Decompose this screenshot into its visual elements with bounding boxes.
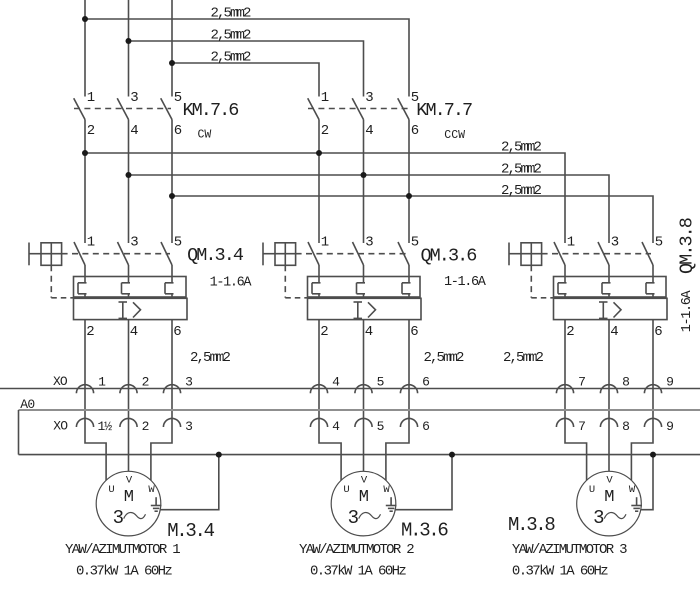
- svg-text:U: U: [108, 484, 114, 496]
- svg-text:W: W: [629, 484, 636, 496]
- mechanical linkage QM.3.6: [296, 253, 407, 255]
- svg-text:CW: CW: [198, 128, 212, 141]
- svg-text:0.37kW 1A 60Hz: 0.37kW 1A 60Hz: [76, 564, 172, 580]
- wire blade to overload QM.3.6 1-2: [318, 265, 320, 277]
- junction bus C / KM.7.6: [169, 193, 175, 199]
- wire blade to overload QM.3.6 3-4: [363, 265, 365, 277]
- breaker pole blade QM.3.4 5-6: [161, 242, 172, 265]
- terminal clip row 2 #2: [120, 418, 137, 427]
- terminal X0:9 clip row 1: [644, 385, 661, 394]
- svg-text:0.37kW 1A 60Hz: 0.37kW 1A 60Hz: [512, 564, 608, 580]
- svg-text:4: 4: [365, 123, 373, 139]
- junction PE bus motor M.3.4: [216, 452, 222, 458]
- svg-text:0.37kW 1A 60Hz: 0.37kW 1A 60Hz: [310, 564, 406, 580]
- contactor pole blade KM.7.6 3-4: [117, 98, 128, 119]
- svg-text:3: 3: [185, 419, 193, 434]
- svg-text:2,5mm2: 2,5mm2: [503, 350, 544, 366]
- svg-text:W: W: [383, 484, 390, 496]
- wire bus phase B to QM.3.8 pin 3: [129, 175, 610, 243]
- manual actuator QM.3.6: [263, 243, 296, 266]
- wire QM pin 6 to motor 2 W: [386, 320, 409, 481]
- wire L1 to KM.7.7 pin 5: [85, 19, 409, 97]
- breaker pole blade QM.3.8 5-6: [642, 242, 653, 265]
- wire QM pin 6 to motor 1 W: [151, 320, 172, 481]
- I> symbol QM.3.4: [119, 302, 141, 318]
- mechanical linkage KM.7.7: [308, 108, 408, 110]
- wire blade to overload QM.3.4 1-2: [84, 265, 86, 277]
- svg-text:1-1.6A: 1-1.6A: [444, 275, 487, 290]
- svg-text:1: 1: [321, 235, 329, 251]
- svg-text:QM.3.8: QM.3.8: [677, 218, 698, 274]
- junction PE bus motor M.3.8: [650, 452, 656, 458]
- svg-text:2: 2: [320, 324, 328, 340]
- breaker pole blade QM.3.8 1-2: [554, 242, 565, 265]
- mechanical linkage QM.3.4: [62, 253, 170, 255]
- trip linkage dashed QM.3.4: [51, 265, 73, 298]
- I> symbol QM.3.8: [599, 302, 621, 318]
- terminal clip row 2 #9: [644, 418, 661, 427]
- motor protection switch QM.3.8: [509, 218, 698, 340]
- svg-text:6: 6: [411, 123, 419, 139]
- wire bus phase C to QM.3.8 pin 5: [172, 196, 653, 243]
- PE ground bus: [19, 454, 700, 456]
- wire QM pin 2 to motor 3 U: [565, 320, 587, 481]
- manual actuator QM.3.8: [509, 243, 542, 266]
- thermal element pole 5 QM.3.6: [402, 277, 411, 298]
- terminal X0:2 clip row 1: [120, 385, 137, 394]
- svg-text:6: 6: [410, 324, 418, 340]
- svg-text:YAW/AZIMUTMOTOR 2: YAW/AZIMUTMOTOR 2: [299, 542, 414, 558]
- svg-text:1-1.6A: 1-1.6A: [210, 276, 253, 291]
- terminal clip row 2 #4: [310, 418, 327, 427]
- svg-text:3: 3: [113, 507, 124, 529]
- svg-text:QM.3.6: QM.3.6: [421, 246, 477, 267]
- svg-text:1½: 1½: [98, 419, 113, 434]
- thermal element pole 5 QM.3.4: [165, 277, 174, 298]
- svg-text:2,5mm2: 2,5mm2: [501, 140, 542, 156]
- wire KM.7.6 pin 2 down to QM.3.4 pin 1: [84, 120, 86, 244]
- thermal overload box QM.3.4: [74, 277, 187, 298]
- svg-text:2,5mm2: 2,5mm2: [501, 183, 542, 199]
- contactor KM.7.7 (CCW): [308, 90, 472, 142]
- svg-text:5: 5: [174, 90, 182, 106]
- wire motor M.3.8 PE to ground bus: [641, 455, 653, 510]
- motor protection switch QM.3.4: [29, 235, 252, 340]
- thermal overload box QM.3.8: [554, 277, 667, 298]
- thermal element pole 3 QM.3.4: [122, 277, 131, 298]
- svg-text:2,5mm2: 2,5mm2: [190, 350, 231, 366]
- wire supply L3 vertical: [171, 0, 173, 97]
- thermal element pole 1 QM.3.6: [312, 277, 321, 298]
- svg-text:4: 4: [130, 324, 138, 340]
- svg-text:6: 6: [422, 419, 430, 434]
- svg-text:1-1.6A: 1-1.6A: [680, 290, 695, 333]
- svg-text:2,5mm2: 2,5mm2: [211, 6, 252, 22]
- svg-text:YAW/AZIMUTMOTOR 1: YAW/AZIMUTMOTOR 1: [65, 542, 180, 558]
- svg-text:CCW: CCW: [444, 129, 465, 142]
- wire bus phase A to QM.3.8 pin 1: [85, 153, 565, 243]
- wire QM pin 6 to motor 3 W: [631, 320, 653, 481]
- svg-text:U: U: [589, 484, 595, 496]
- contactor pole blade KM.7.6 5-6: [161, 98, 172, 119]
- thermal element pole 5 QM.3.8: [646, 277, 655, 298]
- terminal X0:3 clip row 1: [163, 385, 180, 394]
- svg-text:M.3.6: M.3.6: [401, 520, 448, 542]
- magnetic trip box I> QM.3.4: [74, 298, 188, 319]
- terminal clip row 2 #1: [76, 418, 93, 427]
- wire supply L2 vertical: [128, 0, 130, 97]
- svg-text:2,5mm2: 2,5mm2: [211, 50, 252, 66]
- wire blade to overload QM.3.8 5-6: [652, 265, 654, 277]
- ground symbol motor M.3.4: [151, 497, 162, 511]
- svg-text:U: U: [343, 484, 349, 496]
- svg-text:3: 3: [593, 507, 604, 529]
- wire L3 to KM.7.7 pin 1: [172, 63, 319, 97]
- wire QM pin 2 to motor 1 U: [85, 320, 106, 481]
- svg-text:7: 7: [578, 419, 586, 434]
- wire QM pin 4 to motor 2 V: [363, 320, 365, 472]
- svg-text:V: V: [606, 475, 613, 487]
- terminal X0:1 clip row 1: [76, 385, 93, 394]
- svg-text:1: 1: [321, 90, 329, 106]
- motor M.3.6 3-phase symbol: [348, 507, 381, 529]
- thermal element pole 1 QM.3.8: [558, 277, 567, 298]
- svg-text:3: 3: [130, 90, 138, 106]
- terminal strip X0 rail: [0, 388, 700, 390]
- svg-text:5: 5: [411, 235, 419, 251]
- svg-text:XO: XO: [53, 419, 68, 434]
- junction bus B / KM.7.7: [361, 172, 367, 178]
- motor M.3.8 3-phase symbol: [593, 507, 626, 529]
- breaker pole blade QM.3.6 1-2: [308, 242, 319, 265]
- svg-text:M.3.8: M.3.8: [508, 514, 555, 536]
- svg-text:2: 2: [142, 419, 150, 434]
- manual actuator QM.3.4: [29, 243, 62, 266]
- contactor pole blade KM.7.7 3-4: [352, 98, 363, 119]
- svg-text:KM.7.7: KM.7.7: [416, 100, 472, 121]
- junction bus C / KM.7.7: [406, 193, 412, 199]
- junction L3 tap: [169, 60, 175, 66]
- thermal element pole 3 QM.3.8: [602, 277, 611, 298]
- svg-text:5: 5: [377, 419, 385, 434]
- svg-text:2: 2: [566, 324, 574, 340]
- motor M.3.4 body circle: [96, 471, 161, 536]
- svg-text:5: 5: [377, 374, 385, 389]
- svg-text:M: M: [124, 488, 134, 507]
- svg-text:2: 2: [87, 123, 95, 139]
- trip linkage dashed QM.3.8: [531, 265, 553, 298]
- wire KM.7.7 pin 4 down to QM.3.6 pin 3: [363, 120, 365, 244]
- motor M.3.8 body circle: [577, 471, 642, 536]
- svg-text:6: 6: [422, 374, 430, 389]
- svg-text:6: 6: [173, 324, 181, 340]
- svg-text:9: 9: [666, 419, 674, 434]
- wire A0 drop to PE bus: [18, 410, 20, 455]
- wire KM.7.7 pin 2 down to QM.3.6 pin 1: [318, 120, 320, 244]
- terminal clip row 2 #6: [400, 418, 417, 427]
- terminal clip row 2 #5: [355, 418, 372, 427]
- junction bus A / KM.7.6: [82, 150, 88, 156]
- svg-text:4: 4: [365, 324, 373, 340]
- contactor pole blade KM.7.7 1-2: [308, 98, 319, 119]
- svg-text:3: 3: [185, 374, 193, 389]
- svg-text:V: V: [361, 475, 368, 487]
- breaker pole blade QM.3.4 3-4: [118, 242, 129, 265]
- wire QM pin 2 to motor 2 U: [319, 320, 341, 481]
- wire motor M.3.4 PE to ground bus: [160, 455, 219, 510]
- svg-text:9: 9: [666, 374, 674, 389]
- terminal X0:7 clip row 1: [556, 385, 573, 394]
- wire QM pin 4 to motor 1 V: [128, 320, 130, 472]
- svg-text:3: 3: [365, 235, 373, 251]
- svg-text:5: 5: [174, 235, 182, 251]
- breaker pole blade QM.3.8 3-4: [598, 242, 609, 265]
- wire blade to overload QM.3.4 5-6: [171, 265, 173, 277]
- motor M.3.4 3-phase symbol: [113, 507, 146, 529]
- terminal clip row 2 #3: [163, 418, 180, 427]
- svg-text:6: 6: [174, 123, 182, 139]
- mechanical linkage QM.3.8: [542, 253, 651, 255]
- svg-text:M: M: [359, 488, 369, 507]
- svg-text:2: 2: [86, 324, 94, 340]
- svg-text:1: 1: [87, 235, 95, 251]
- junction L2 tap: [126, 38, 132, 44]
- wire supply L1 vertical: [84, 0, 86, 97]
- svg-text:2: 2: [321, 123, 329, 139]
- wire KM.7.7 pin 6 down to QM.3.6 pin 5: [408, 120, 410, 244]
- svg-text:5: 5: [655, 235, 663, 251]
- svg-text:7: 7: [578, 374, 586, 389]
- svg-text:3: 3: [611, 235, 619, 251]
- svg-text:V: V: [126, 475, 133, 487]
- wire blade to overload QM.3.6 5-6: [408, 265, 410, 277]
- svg-text:4: 4: [610, 324, 618, 340]
- contactor pole blade KM.7.7 5-6: [398, 98, 409, 119]
- svg-text:2,5mm2: 2,5mm2: [424, 350, 465, 366]
- mechanical linkage KM.7.6: [74, 108, 171, 110]
- magnetic trip box I> QM.3.8: [554, 298, 668, 319]
- terminal X0:8 clip row 1: [600, 385, 617, 394]
- thermal overload box QM.3.6: [308, 277, 421, 298]
- svg-text:2,5mm2: 2,5mm2: [211, 28, 252, 44]
- svg-text:4: 4: [130, 123, 138, 139]
- svg-text:3: 3: [348, 507, 359, 529]
- svg-text:1: 1: [87, 90, 95, 106]
- terminal clip row 2 #8: [600, 418, 617, 427]
- svg-text:W: W: [148, 484, 155, 496]
- svg-text:8: 8: [622, 374, 630, 389]
- junction L1 tap: [82, 16, 88, 22]
- svg-text:3: 3: [365, 90, 373, 106]
- breaker pole blade QM.3.6 3-4: [353, 242, 364, 265]
- svg-text:4: 4: [332, 374, 340, 389]
- terminal X0:4 clip row 1: [310, 385, 327, 394]
- junction PE bus motor M.3.6: [449, 452, 455, 458]
- wire blade to overload QM.3.8 3-4: [608, 265, 610, 277]
- thermal element pole 3 QM.3.6: [357, 277, 366, 298]
- bus A0 rail: [19, 409, 700, 411]
- breaker pole blade QM.3.6 5-6: [398, 242, 409, 265]
- wire blade to overload QM.3.4 3-4: [128, 265, 130, 277]
- terminal clip row 2 #7: [556, 418, 573, 427]
- svg-text:2,5mm2: 2,5mm2: [501, 162, 542, 178]
- svg-text:1: 1: [567, 235, 575, 251]
- svg-text:2: 2: [142, 374, 150, 389]
- wire motor M.3.6 PE to ground bus: [395, 455, 452, 510]
- motor protection switch QM.3.6: [263, 235, 487, 340]
- svg-text:M: M: [604, 488, 614, 507]
- svg-text:1: 1: [98, 374, 106, 389]
- motor M.3.6 body circle: [331, 471, 396, 536]
- contactor KM.7.6 (CW): [74, 90, 239, 142]
- ground symbol motor M.3.6: [386, 497, 397, 511]
- svg-text:6: 6: [654, 324, 662, 340]
- svg-text:QM.3.4: QM.3.4: [187, 245, 244, 266]
- trip linkage dashed QM.3.6: [285, 265, 307, 298]
- terminal X0:6 clip row 1: [400, 385, 417, 394]
- contactor pole blade KM.7.6 1-2: [74, 98, 85, 119]
- svg-text:3: 3: [130, 235, 138, 251]
- breaker pole blade QM.3.4 1-2: [74, 242, 85, 265]
- wire blade to overload QM.3.8 1-2: [564, 265, 566, 277]
- svg-text:KM.7.6: KM.7.6: [183, 100, 239, 121]
- junction bus B / KM.7.6: [126, 172, 132, 178]
- I> symbol QM.3.6: [354, 302, 376, 318]
- svg-text:XO: XO: [53, 374, 68, 389]
- wire L2 to KM.7.7 pin 3: [129, 41, 364, 97]
- wire QM pin 4 to motor 3 V: [608, 320, 610, 472]
- svg-text:M.3.4: M.3.4: [167, 520, 214, 542]
- junction bus A / KM.7.7: [316, 150, 322, 156]
- svg-text:YAW/AZIMUTMOTOR 3: YAW/AZIMUTMOTOR 3: [512, 542, 627, 558]
- wire KM.7.6 pin 4 down to QM.3.4 pin 3: [128, 120, 130, 244]
- magnetic trip box I> QM.3.6: [308, 298, 422, 319]
- terminal X0:5 clip row 1: [355, 385, 372, 394]
- wire KM.7.6 pin 6 down to QM.3.4 pin 5: [171, 120, 173, 244]
- svg-text:4: 4: [332, 419, 340, 434]
- thermal element pole 1 QM.3.4: [78, 277, 87, 298]
- ground symbol motor M.3.8: [631, 497, 642, 511]
- svg-text:8: 8: [622, 419, 630, 434]
